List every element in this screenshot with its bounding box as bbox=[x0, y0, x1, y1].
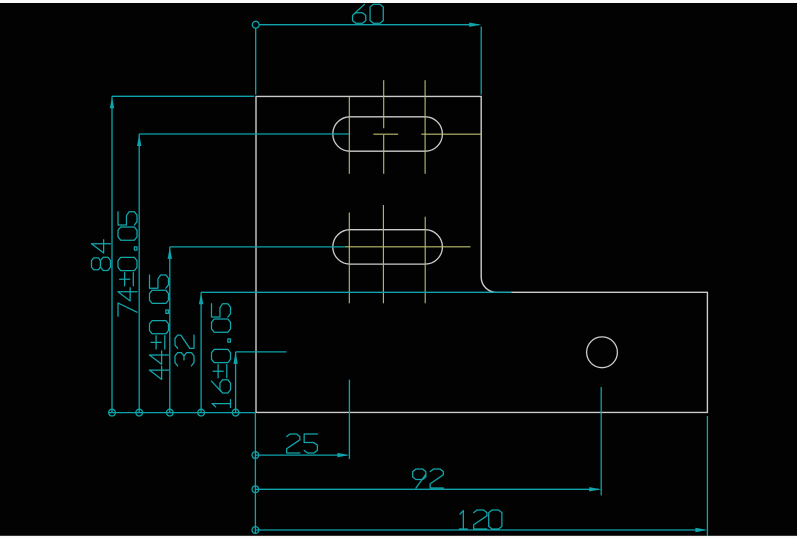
bottom dims baseline bbox=[254, 412, 256, 534]
dim 74 dimension line bbox=[138, 134, 140, 413]
bottom white border strip bbox=[0, 536, 797, 538]
dim 25 extension line bbox=[348, 380, 350, 459]
text 74±0.05 (rotated) bbox=[118, 212, 137, 316]
lower slot (obround hole) bbox=[333, 230, 443, 264]
dim 84 origin donut bbox=[109, 409, 116, 416]
dim 16 arrowhead bbox=[233, 352, 237, 364]
text 32 (rotated) bbox=[175, 335, 194, 366]
upper slot horizontal center tick bbox=[373, 133, 398, 135]
text 44±0.05 (rotated) bbox=[150, 275, 169, 379]
dim 92 dimension line bbox=[255, 488, 599, 490]
top white border strip bbox=[0, 0, 797, 3]
dim 44 arrowhead bbox=[168, 247, 172, 259]
dim 74 arrowhead bbox=[137, 134, 141, 146]
dim 60 right extension line bbox=[480, 27, 482, 95]
dim 120 extension line bbox=[706, 416, 708, 536]
dim 16 extension line bbox=[236, 351, 287, 353]
round hole dia 8 bbox=[587, 337, 618, 368]
text 16±0.05 (rotated) bbox=[212, 304, 231, 408]
dim 32 dimension line bbox=[200, 292, 202, 412]
dim 44 dimension line bbox=[169, 247, 171, 413]
dim 44 origin donut bbox=[166, 409, 173, 416]
text 120 bbox=[459, 510, 502, 529]
lower slot middle vertical centerline bbox=[382, 205, 384, 303]
dim 60 left extension line bbox=[255, 28, 257, 95]
dim 25 origin donut bbox=[252, 452, 259, 459]
dim 32 extension line bbox=[201, 291, 511, 293]
dim 60 dimension line bbox=[259, 24, 479, 26]
dim 25 arrowhead bbox=[337, 453, 349, 457]
lower slot horizontal centerline bbox=[345, 246, 471, 248]
dim 92 origin donut bbox=[252, 486, 259, 493]
lower slot right vertical centerline bbox=[424, 217, 426, 304]
dim 16 dimension line bbox=[235, 352, 237, 413]
text 25 bbox=[287, 434, 318, 453]
text 60 bbox=[353, 4, 384, 23]
dim 84 dimension line bbox=[111, 96, 113, 412]
dim 74 extension line bbox=[139, 133, 349, 135]
dim 120 arrowhead bbox=[695, 528, 707, 532]
upper slot middle vertical centerline (upper segment) bbox=[383, 80, 385, 128]
dim 84 extension line bbox=[112, 95, 254, 97]
text 92 bbox=[413, 469, 444, 488]
upper slot middle vertical centerline (lower segment) bbox=[383, 135, 385, 174]
dimension texts (CAD stroke font) bbox=[92, 4, 502, 529]
part outline (L-shaped bracket plate, white) bbox=[256, 96, 707, 412]
upper slot left vertical centerline bbox=[348, 97, 350, 174]
dim 120 dimension line bbox=[255, 529, 705, 531]
left dims baseline bbox=[109, 412, 256, 414]
dim 92 extension line bbox=[600, 387, 602, 495]
upper slot right vertical centerline bbox=[424, 80, 426, 174]
dim 74 origin donut bbox=[136, 409, 143, 416]
dim 60 arrowhead bbox=[469, 23, 481, 27]
upper slot (obround hole) bbox=[333, 117, 443, 151]
dim 84 arrowhead bbox=[110, 96, 114, 108]
dim 32 arrowhead bbox=[199, 292, 203, 304]
dim 60 origin donut bbox=[252, 21, 259, 28]
dim 120 origin donut bbox=[252, 527, 259, 534]
upper slot horizontal centerline right bbox=[421, 133, 481, 135]
dim 32 origin donut bbox=[198, 409, 205, 416]
dim 16 origin donut bbox=[232, 409, 239, 416]
dim 92 arrowhead bbox=[589, 487, 601, 491]
lower slot left vertical centerline bbox=[348, 213, 350, 304]
dim 44 extension line bbox=[170, 246, 345, 248]
dim 25 dimension line bbox=[255, 454, 347, 456]
text 84 (rotated) bbox=[92, 240, 111, 271]
